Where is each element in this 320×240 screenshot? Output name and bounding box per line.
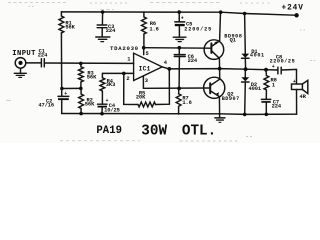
input jack J1 (15, 58, 26, 69)
svg-text:+: + (293, 79, 296, 85)
svg-text:20K: 20K (136, 94, 146, 100)
wire R5 right to pin4 (156, 69, 170, 105)
wire pin2 branch down to R5 (124, 73, 138, 104)
transistor Q2 BD907 (204, 77, 225, 98)
svg-text:2: 2 (126, 76, 129, 82)
resistor R4 (100, 78, 105, 91)
ground (C5) (173, 36, 186, 38)
ground (main, below rail) (215, 117, 225, 119)
svg-text:BD907: BD907 (222, 96, 240, 102)
ground (input jack) (20, 68, 22, 73)
svg-text:4R: 4R (300, 94, 307, 100)
svg-text:+: + (64, 91, 67, 97)
junction output node (218, 67, 222, 71)
capacitor C2 (61, 89, 63, 97)
junction Q1-rail (219, 10, 223, 14)
svg-text:1.6: 1.6 (149, 26, 158, 32)
svg-text:1.6: 1.6 (182, 100, 191, 106)
top +24V rail wire (61, 12, 294, 15)
junction R2-rail (79, 112, 83, 116)
svg-text:1: 1 (127, 56, 130, 62)
capacitor C1 (40, 59, 42, 67)
junction pin2 branch (122, 72, 126, 76)
Q2 emitter lead down (218, 97, 220, 114)
svg-text:56K: 56K (65, 25, 75, 31)
diode D1 4001 (244, 14, 247, 54)
svg-text:+24V: +24V (282, 4, 304, 12)
junction C7-rail (265, 113, 269, 117)
capacitor C5 (178, 12, 180, 22)
resistor R8 (264, 70, 269, 100)
svg-text:INPUT: INPUT (12, 50, 36, 58)
svg-text:56K: 56K (87, 75, 97, 81)
svg-text:2200/25: 2200/25 (184, 26, 212, 32)
resistor R1 (59, 12, 64, 33)
node R3/R2 junction (79, 87, 83, 91)
junction D-output (244, 67, 248, 71)
pin 5 stub (143, 48, 145, 55)
junction C3-rail (101, 10, 105, 14)
junction C6 top (178, 46, 182, 50)
speaker SP1 (292, 84, 303, 90)
svg-text:+: + (181, 16, 184, 22)
capacitor C7 (261, 98, 270, 100)
capacitor C3 (101, 12, 103, 25)
wire C8 to speaker (282, 69, 297, 84)
+24V terminal (294, 13, 298, 17)
resistor R5 (138, 102, 156, 107)
svg-text:PA19: PA19 (96, 125, 122, 137)
resistor R6 (142, 12, 147, 48)
wire R1 bottom to node M (crosses input wire) (60, 33, 62, 89)
junction node C (177, 87, 181, 91)
junction R8 top (264, 68, 268, 72)
svg-text:3: 3 (145, 78, 148, 84)
junction C4-rail (100, 112, 104, 116)
Q1 emitter lead down (218, 58, 220, 68)
Q1 collector lead to rail (219, 12, 222, 41)
svg-text:47/16: 47/16 (38, 103, 54, 109)
node M junction (60, 87, 64, 91)
junction R6/pin5 node (142, 46, 146, 50)
svg-text:224: 224 (188, 58, 198, 64)
op-amp IC1 TDA2030 triangle (134, 53, 163, 80)
capacitor C6 (178, 48, 180, 55)
junction D2-rail (243, 113, 247, 117)
svg-text:Q1: Q1 (230, 37, 236, 43)
speaker lead to rail (296, 90, 298, 115)
node A junction (R3 top) (79, 62, 83, 66)
transistor Q1 BD908 (204, 40, 224, 60)
wire base node B (144, 47, 211, 50)
svg-text:IC1: IC1 (139, 65, 151, 72)
svg-text:4001: 4001 (250, 52, 265, 58)
svg-text:4001: 4001 (249, 86, 262, 92)
Q2 collector lead up (219, 69, 221, 80)
capacitor C8 (277, 67, 279, 74)
capacitor C4 (101, 91, 103, 104)
svg-text:OTL.: OTL. (182, 124, 216, 140)
wire jack to C1 (26, 62, 41, 64)
resistor R7 (176, 89, 181, 115)
wire node M to R3/R2 node (62, 87, 81, 89)
junction D1-rail (243, 12, 247, 16)
output wire (162, 67, 277, 70)
svg-text:30W: 30W (141, 124, 167, 140)
svg-text:56K: 56K (85, 102, 95, 108)
pin 3 stub and wire to node C (143, 76, 209, 88)
pin 4 output junction (167, 67, 171, 71)
diode D2 4001 (244, 69, 246, 77)
svg-text:5: 5 (146, 51, 149, 57)
resistor R3 (79, 64, 84, 89)
svg-text:TDA2030: TDA2030 (110, 45, 139, 52)
scan noise specks (6, 2, 316, 141)
svg-text:10/25: 10/25 (104, 107, 120, 113)
svg-text:224: 224 (106, 28, 116, 34)
svg-text:+: + (272, 64, 275, 70)
svg-text:224: 224 (38, 53, 48, 59)
bottom ground rail wire (62, 113, 297, 116)
resistor R2 (79, 89, 84, 114)
svg-text:1: 1 (272, 82, 275, 88)
ground (C3) (96, 36, 110, 38)
svg-text:3K3: 3K3 (106, 82, 115, 88)
svg-text:224: 224 (272, 103, 282, 109)
wire C1 to IC pin 1 (45, 62, 134, 64)
pin 2 wire (102, 73, 133, 77)
svg-text:+: + (106, 98, 109, 104)
junction C5-rail (177, 10, 181, 14)
